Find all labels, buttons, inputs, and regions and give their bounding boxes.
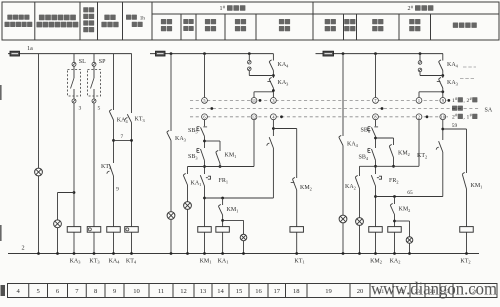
svg-text:KA3: KA3 — [278, 80, 289, 86]
svg-text:SB3: SB3 — [188, 154, 198, 160]
svg-text:KM1: KM1 — [225, 153, 237, 159]
svg-text:KT2: KT2 — [460, 259, 470, 265]
svg-text:16: 16 — [255, 288, 262, 295]
svg-text:KT2: KT2 — [417, 153, 427, 159]
svg-text:12: 12 — [252, 114, 256, 119]
svg-text:KA4: KA4 — [447, 62, 459, 68]
svg-text:14: 14 — [217, 288, 224, 295]
svg-text:FR1: FR1 — [219, 178, 229, 184]
svg-text:3: 3 — [272, 98, 274, 103]
svg-text:2: 2 — [21, 245, 24, 252]
svg-text:10: 10 — [441, 114, 445, 119]
svg-text:9: 9 — [116, 187, 119, 193]
svg-text:KM1: KM1 — [227, 207, 239, 213]
svg-text:11: 11 — [252, 98, 256, 103]
svg-text:1a: 1a — [27, 46, 33, 52]
svg-text:15: 15 — [236, 288, 243, 295]
svg-text:KT4: KT4 — [126, 259, 137, 265]
svg-text:KA2: KA2 — [390, 259, 401, 265]
svg-text:7: 7 — [120, 134, 123, 140]
svg-text:1h: 1h — [140, 16, 146, 22]
svg-text:KA1: KA1 — [191, 181, 202, 187]
svg-text:KM1: KM1 — [200, 259, 212, 265]
svg-text:59: 59 — [452, 123, 458, 129]
svg-text:KA4: KA4 — [109, 259, 121, 265]
svg-text:KM2: KM2 — [300, 185, 312, 191]
svg-text:KM2: KM2 — [398, 151, 410, 157]
svg-text:KM2: KM2 — [370, 259, 382, 265]
svg-text:5: 5 — [203, 98, 205, 103]
svg-text:KA3: KA3 — [70, 259, 82, 265]
svg-text:SB6: SB6 — [361, 128, 371, 134]
svg-text:SL: SL — [79, 59, 86, 65]
svg-text:12: 12 — [180, 288, 187, 295]
svg-text:KA3: KA3 — [175, 136, 186, 142]
svg-text:SA: SA — [485, 108, 493, 114]
svg-text:FR2: FR2 — [389, 178, 399, 184]
svg-text:KT4: KT4 — [101, 164, 112, 170]
svg-text:18: 18 — [293, 288, 300, 295]
svg-text:www.diangon.com: www.diangon.com — [371, 279, 497, 299]
svg-text:11: 11 — [158, 288, 164, 295]
svg-text:3: 3 — [79, 106, 82, 112]
svg-text:KT1: KT1 — [294, 259, 304, 265]
svg-text:65: 65 — [407, 190, 413, 196]
svg-text:KA2: KA2 — [345, 184, 356, 190]
svg-text:KA4: KA4 — [347, 142, 359, 148]
svg-text:1: 1 — [418, 98, 420, 103]
svg-text:5: 5 — [98, 106, 101, 112]
svg-text:KA4: KA4 — [117, 118, 129, 124]
svg-text:KT3: KT3 — [135, 117, 145, 123]
svg-text:SB5: SB5 — [188, 128, 198, 134]
svg-text:KT3: KT3 — [89, 259, 100, 265]
svg-text:KM2: KM2 — [399, 207, 411, 213]
svg-text:13: 13 — [200, 288, 207, 295]
svg-text:10: 10 — [133, 288, 140, 295]
svg-text:17: 17 — [273, 288, 280, 295]
svg-text:SP: SP — [99, 59, 106, 65]
svg-text:KA3: KA3 — [447, 80, 458, 86]
svg-text:KM1: KM1 — [471, 183, 483, 189]
svg-text:9: 9 — [442, 98, 444, 103]
svg-text:2: 2 — [418, 114, 420, 119]
svg-text:SB4: SB4 — [359, 155, 369, 161]
svg-text:KA4: KA4 — [278, 62, 290, 68]
svg-text:KA1: KA1 — [218, 259, 229, 265]
svg-text:20: 20 — [357, 288, 364, 295]
svg-text:8: 8 — [374, 114, 376, 119]
svg-text:19: 19 — [325, 288, 332, 295]
